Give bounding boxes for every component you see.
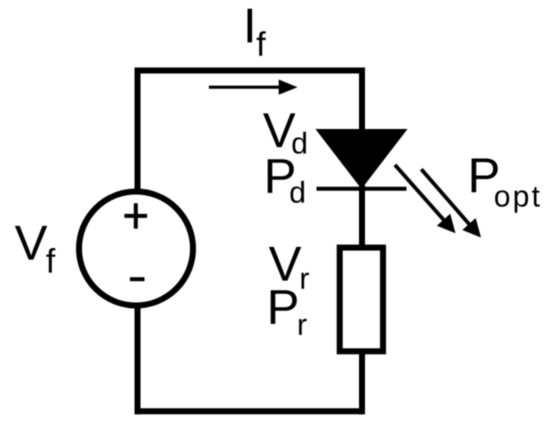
wire: LED cathode down to resistor top bbox=[359, 185, 365, 250]
label Vd bbox=[263, 113, 295, 147]
label Vf bbox=[15, 226, 47, 260]
light ray arrow 1 bbox=[395, 165, 456, 233]
wire: resistor bottom to bottom-right corner bbox=[359, 349, 365, 414]
voltage source V1 circle bbox=[79, 192, 193, 306]
current arrow If bbox=[209, 80, 298, 95]
wire: bottom-left corner up to source bottom terminal bbox=[135, 306, 141, 414]
resistor R1 body bbox=[340, 248, 383, 352]
label Pd bbox=[268, 159, 294, 193]
label If bbox=[248, 9, 253, 43]
LED D1 cathode bar bbox=[317, 187, 407, 191]
wire: top horizontal bbox=[135, 68, 366, 74]
label Popt bbox=[472, 159, 498, 193]
label Vr bbox=[269, 247, 301, 281]
wire: source top terminal to top-left corner bbox=[135, 68, 141, 193]
wire: top-right corner down to LED anode bbox=[359, 68, 365, 133]
wire: bottom horizontal bbox=[135, 408, 366, 414]
plus sign inside source bbox=[124, 203, 147, 228]
label Pr bbox=[271, 290, 297, 324]
light ray arrow 2 bbox=[421, 169, 481, 237]
LED D1 triangle (anode) bbox=[315, 129, 407, 189]
minus sign inside source bbox=[130, 277, 145, 281]
